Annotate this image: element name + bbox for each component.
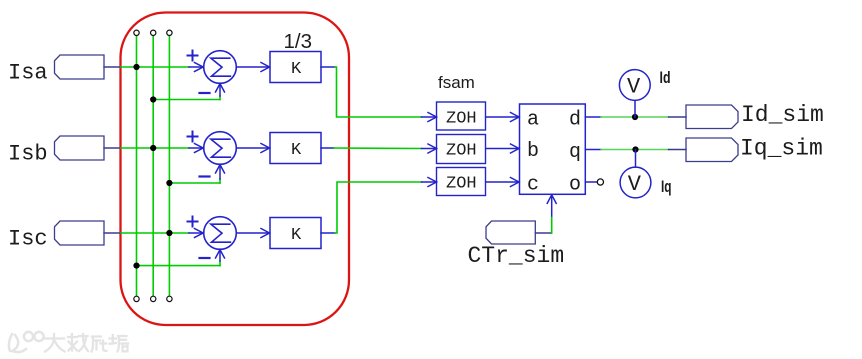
terminal circles top of bus lines (134, 30, 172, 35)
arrow into summer U1 bottom (216, 84, 225, 92)
input tag Isa (8, 55, 104, 86)
wire CTr_sim to block bottom (535, 195, 556, 233)
summer U2 (204, 132, 237, 165)
node Isb on bus line 2 (150, 145, 156, 151)
wire Isa tag to bus (104, 66, 189, 68)
summer U3 (204, 217, 237, 250)
svg-text:K: K (291, 60, 302, 79)
minus sign summer U3 (200, 257, 210, 259)
node d row (632, 114, 638, 120)
svg-text:CTr_sim: CTr_sim (468, 243, 565, 269)
gain K3 (270, 218, 321, 249)
summer U1 (204, 51, 237, 84)
svg-text:V: V (628, 172, 642, 197)
arrow into summer U1 left (189, 63, 203, 72)
node Isa on bus line 1 (133, 64, 139, 70)
wire ZOH3 to port c (486, 178, 519, 187)
arrow into summer U3 left (189, 229, 203, 238)
input tag Isc (8, 221, 104, 252)
node minus1 on bus line 2 (150, 96, 156, 102)
terminal circles bottom of bus lines (134, 296, 172, 301)
abc to dqo transformation block U7 (520, 104, 586, 196)
bus line 2 (152, 36, 154, 296)
wire port d to output tag Id_sim (585, 116, 686, 118)
output tag Id_sim (686, 102, 824, 129)
plus sign summer U3 (188, 217, 198, 227)
voltage probe V Id (619, 70, 650, 117)
minus sign summer U2 (200, 175, 210, 177)
node minus3 on bus line 1 (133, 263, 139, 269)
wire port q to output tag Iq_sim (585, 149, 686, 151)
node minus2 on bus line 3 (166, 180, 172, 186)
terminal circle port o (597, 179, 603, 185)
svg-text:K: K (291, 141, 302, 160)
watermark text (44, 334, 128, 352)
wire summer U3 to gain K3 (236, 229, 269, 238)
plus sign summer U2 (188, 132, 198, 142)
svg-text:d: d (569, 108, 581, 131)
svg-text:Id: Id (660, 68, 671, 87)
svg-text:c: c (527, 173, 539, 196)
red highlight box (121, 13, 350, 326)
wire ZOH2 to port b (486, 144, 519, 153)
svg-text:Isc: Isc (8, 227, 48, 252)
svg-text:b: b (527, 140, 539, 163)
svg-text:ZOH: ZOH (446, 109, 477, 128)
svg-text:ZOH: ZOH (446, 141, 477, 160)
arrow into summer U2 left (189, 144, 203, 153)
svg-text:K: K (291, 226, 302, 245)
svg-text:Iq: Iq (661, 177, 672, 196)
svg-text:o: o (569, 173, 581, 196)
wire summer U2 to gain K2 (236, 144, 269, 153)
wire Isc tag to bus (104, 232, 189, 234)
svg-text:q: q (569, 141, 581, 164)
wire summer U1 to gain K1 (236, 63, 269, 72)
label Iq (661, 177, 672, 196)
label Id (660, 68, 671, 87)
ZOH3 (437, 168, 486, 196)
svg-text:ZOH: ZOH (446, 174, 477, 193)
svg-text:1/3: 1/3 (284, 30, 313, 53)
svg-text:Isa: Isa (8, 61, 48, 86)
wire ZOH1 to port a (486, 113, 519, 122)
arrow into summer U3 bottom (216, 250, 225, 258)
svg-text:a: a (527, 108, 539, 131)
wire minus input summer 3 from bus line 1 (137, 251, 221, 266)
wire minus input summer 1 from bus line 2 (153, 85, 220, 100)
svg-text:Iq_sim: Iq_sim (740, 135, 823, 161)
output tag Iq_sim (686, 135, 823, 161)
label 1/3 for gain K1 (284, 30, 313, 53)
label fsam (438, 73, 475, 92)
wire minus input summer 2 from bus line 3 (169, 166, 220, 184)
svg-text:Id_sim: Id_sim (741, 102, 824, 128)
voltage probe V Iq (620, 150, 651, 198)
input tag Isb (8, 136, 104, 167)
node Isc on bus line 3 (166, 230, 172, 236)
svg-text:fsam: fsam (438, 73, 475, 92)
wire gain K3 to ZOH3 (321, 178, 437, 234)
svg-text:V: V (627, 75, 641, 100)
input tag CTr_sim (468, 221, 565, 269)
ZOH2 (437, 135, 486, 164)
wire gain K1 to ZOH1 (321, 67, 437, 122)
wire port o stub (585, 181, 597, 183)
wire gain K2 to ZOH2 (321, 144, 437, 153)
gain K2 (270, 133, 321, 164)
gain K1 (270, 52, 321, 83)
bus line 3 (168, 36, 170, 296)
svg-text:Isb: Isb (8, 142, 48, 167)
wire Isb tag to bus (104, 147, 189, 149)
bus line 1 (136, 36, 138, 296)
minus sign summer U1 (200, 92, 210, 94)
arrow into summer U2 bottom (216, 165, 225, 173)
watermark logo (9, 332, 44, 352)
plus sign summer U1 (188, 51, 198, 61)
ZOH1 (437, 102, 486, 130)
node q row (632, 146, 638, 152)
